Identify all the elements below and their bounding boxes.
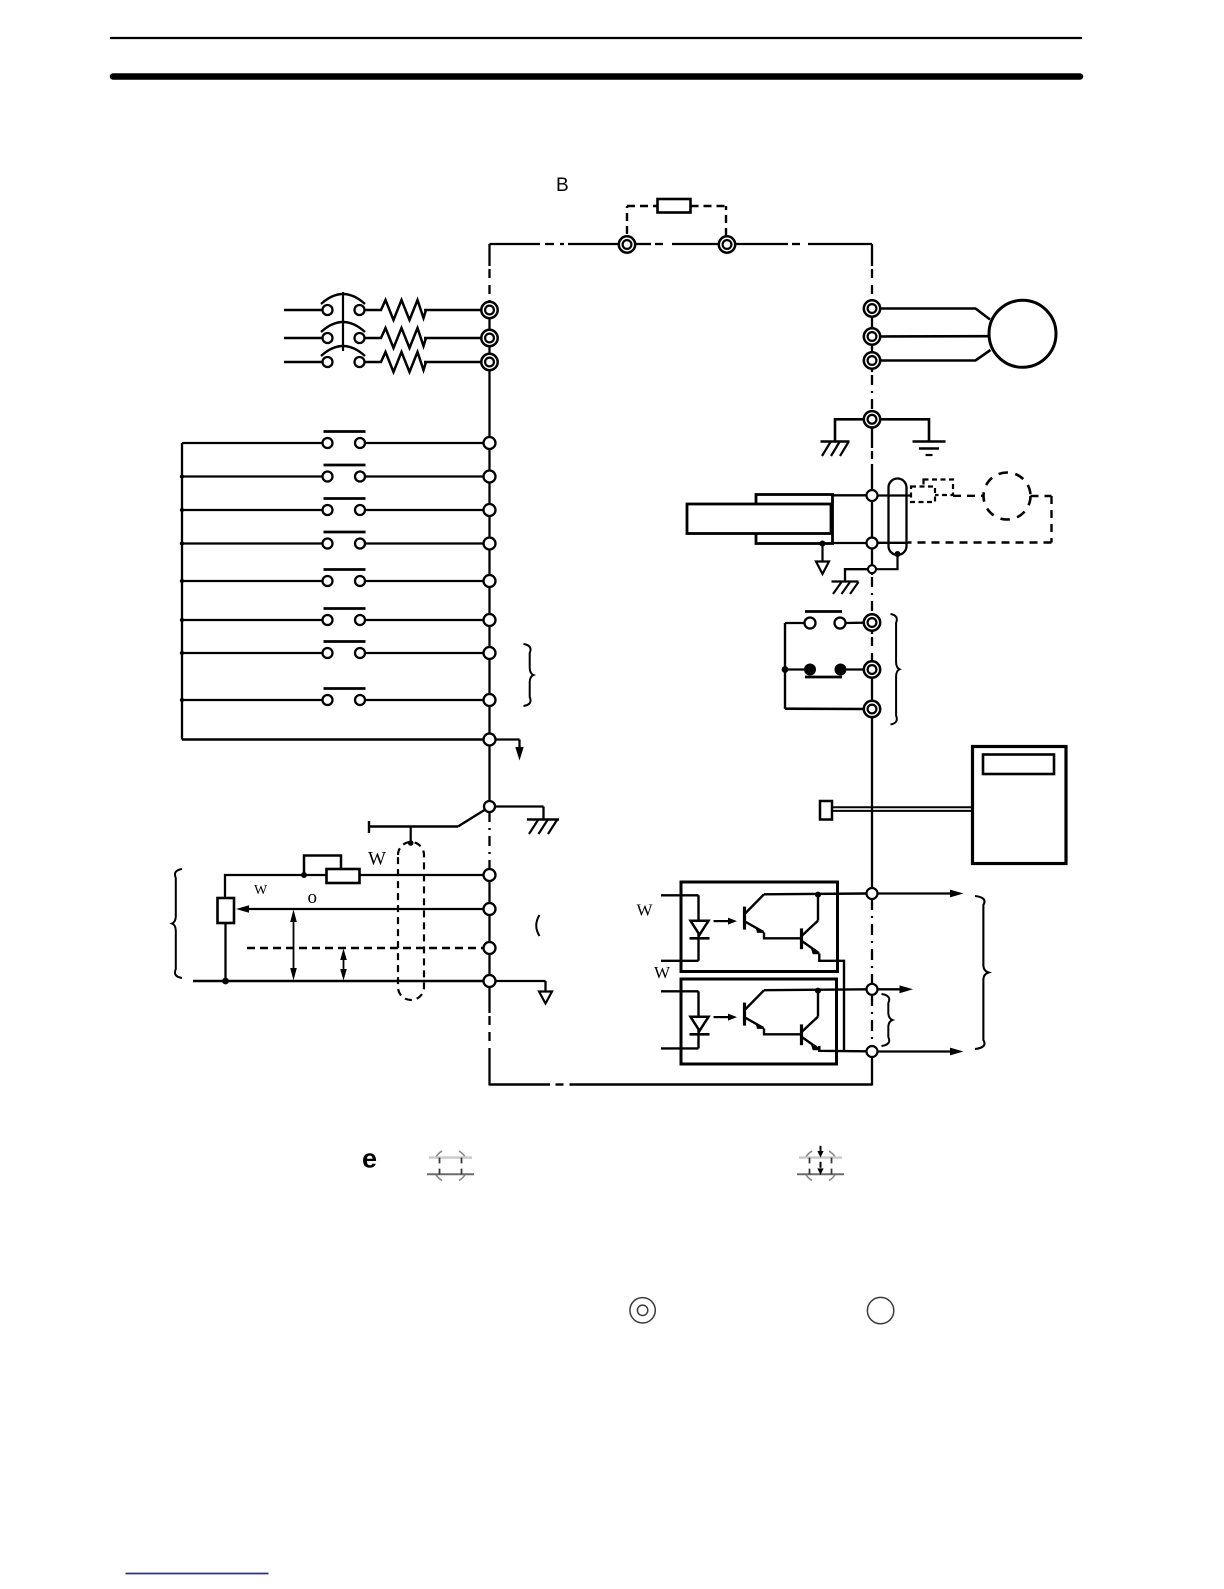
- wire: PH2 LED branch: [697, 991, 699, 1048]
- wire: NO contact left lead: [785, 622, 804, 624]
- wire: NC to terminal MB: [847, 668, 865, 670]
- wire: FM+ to terminal: [833, 494, 867, 496]
- brace: P2/PC pair: [882, 994, 893, 1046]
- terminal P2: [867, 984, 878, 995]
- resistor (line reactor) L1 zigzag: [381, 300, 426, 320]
- terminal R: [481, 302, 497, 318]
- box: operator display window: [983, 755, 1054, 775]
- transistor Q2 PH2: [800, 1024, 803, 1045]
- terminal shield drain: [868, 565, 876, 573]
- resistor R-BR (braking resistor): [658, 199, 691, 213]
- wire: switch S4 to terminal: [365, 542, 484, 544]
- svg-text:W: W: [368, 849, 386, 870]
- terminal MA: [864, 614, 880, 630]
- contact NC dots: [804, 664, 816, 676]
- wire: phase L3 input lead: [284, 361, 323, 363]
- wire: selector lever: [458, 810, 485, 827]
- terminal DI6: [484, 614, 496, 626]
- resistor (line reactor) L2 zigzag: [381, 328, 426, 348]
- resistor (line reactor) L3 zigzag: [381, 352, 426, 372]
- header thick rule: [113, 73, 1080, 80]
- wire: switch S7 to terminal: [365, 652, 484, 654]
- switch S1 contacts: [323, 438, 333, 448]
- wire: relay left link: [784, 623, 786, 709]
- box: digital operator: [973, 747, 1067, 864]
- wire: SC stub to arrow: [496, 738, 520, 740]
- wire: U to motor: [880, 309, 990, 320]
- wire: PH1 input top: [661, 894, 699, 896]
- wire: jumper loop over resistor: [304, 856, 341, 876]
- svg-text:W: W: [254, 883, 268, 898]
- wire: switch S1 to terminal: [365, 442, 484, 444]
- contact NO bar: [805, 610, 842, 613]
- connector: operator plug: [820, 801, 832, 820]
- shield: dashed oval around analog wires: [398, 842, 424, 1000]
- wire: top bus right of B2: [735, 243, 789, 245]
- svg-text:e: e: [362, 1144, 377, 1174]
- svg-text:o: o: [308, 887, 318, 908]
- ground: chassis ground (selector): [527, 818, 559, 820]
- legend: shielded wire symbol: [434, 1149, 468, 1183]
- breaker MCCB pole 2 arc: [321, 322, 365, 332]
- wire: input S3 row: [182, 509, 323, 511]
- wire: input S1 row: [182, 442, 323, 444]
- terminal E (ground): [864, 411, 880, 427]
- meter: frequency meter dashed circle: [984, 473, 1031, 520]
- terminal MC: [864, 701, 880, 717]
- terminal S: [481, 330, 497, 346]
- svg-text:W: W: [637, 901, 654, 920]
- node: shield drain junction: [895, 551, 901, 557]
- terminal T: [481, 354, 497, 370]
- wire: ground terminal to chassis ground: [835, 419, 864, 441]
- wire: switch S5 to terminal: [365, 580, 484, 582]
- arrow: P1 output: [878, 892, 957, 894]
- legend: control-circuit terminal symbol: [867, 1297, 893, 1323]
- connector: dashed plug (big): [924, 480, 954, 496]
- wire: operator cable (2 lines): [832, 806, 973, 808]
- breaker MCCB pole 3 contact circles: [323, 357, 333, 367]
- paren: analog note: [536, 915, 539, 936]
- switch S5 bar: [324, 568, 366, 571]
- arrow: P2 output: [878, 988, 907, 990]
- breaker MCCB pole 1 contact circles: [323, 305, 333, 315]
- wire: shield drain: [877, 554, 898, 569]
- optocoupler PH2 box: [681, 979, 837, 1064]
- switch S1 bar: [324, 430, 366, 433]
- wire: reactor to terminal R/S/T 2: [424, 337, 482, 339]
- wire: FM- to label box: [833, 542, 867, 544]
- switch S7 contacts: [323, 648, 333, 658]
- potentiometer body: [218, 898, 235, 923]
- switch S8 contacts: [323, 695, 333, 705]
- wire: drain to chassis ground: [845, 569, 868, 581]
- connector: dashed plug (small): [911, 487, 935, 503]
- ground: signal ground triangle (FM): [816, 562, 829, 575]
- terminal FM: [867, 490, 878, 501]
- brace: relay output group: [891, 614, 900, 725]
- wire: top bus break dash: [545, 243, 564, 245]
- terminal FI (aux input): [484, 942, 496, 954]
- wire: W to motor: [880, 350, 991, 361]
- wire: junction to signal ground: [821, 544, 823, 562]
- wire: PH2 collector rail: [764, 988, 867, 991]
- breaker MCCB pole 1 arc: [321, 294, 365, 304]
- wire: PH2 input bottom: [661, 1047, 699, 1049]
- arrow: voltage range tall (both ends): [293, 915, 295, 975]
- terminal DI5: [484, 575, 496, 587]
- wire: breaker to reactor pole 1: [365, 309, 383, 311]
- switch S6 bar: [324, 607, 366, 610]
- arrow: pot wiper: [236, 905, 249, 913]
- wire: left vertical bus: [488, 244, 490, 266]
- wire: FM to meter (solid through shield): [878, 494, 912, 496]
- box: FM output label (wide rect): [687, 504, 831, 534]
- wire: switch S6 to terminal: [365, 619, 484, 621]
- wire: PH1 input bottom: [661, 960, 699, 962]
- wire: dashed plug to meter: [953, 495, 984, 497]
- wire: dashed leads of braking resistor: [626, 206, 628, 234]
- wire: input S8 row: [182, 699, 323, 701]
- shield: solid oval on meter wires: [889, 479, 907, 556]
- wire: input S6 row: [182, 619, 323, 621]
- wire: top bus left segment: [490, 243, 541, 245]
- terminal P1: [867, 888, 878, 899]
- wire: dashed meter return: [1031, 495, 1052, 497]
- wire: switch S3 to terminal: [365, 509, 484, 511]
- box: FM output label (tall rect): [756, 495, 833, 544]
- transistor Q1 PH2: [743, 1003, 746, 1026]
- switch S4 bar: [324, 531, 366, 534]
- breaker MCCB pole 3 arc: [321, 346, 365, 356]
- ground: signal ground triangle: [539, 992, 552, 1004]
- switch S8 bar: [324, 687, 366, 690]
- switch S3 contacts: [323, 505, 333, 515]
- arrow: SC down arrow: [515, 747, 523, 761]
- wire: PH1 emitter out: [819, 954, 844, 1052]
- terminal FC (analog common): [484, 975, 496, 987]
- terminal FM common: [867, 538, 878, 549]
- wire: breaker to reactor pole 2: [365, 337, 383, 339]
- svg-text:W: W: [654, 963, 671, 982]
- contact NO circles: [805, 618, 816, 629]
- terminal PC (opto common): [867, 1046, 878, 1057]
- wire: wiper to terminal FR: [248, 908, 484, 910]
- header thin rule: [110, 37, 1082, 39]
- svg-text:B: B: [556, 175, 569, 196]
- wire: selector left row: [369, 825, 458, 827]
- wire: PH1 LED branch: [697, 895, 699, 961]
- diode LED PH1: [691, 921, 709, 935]
- optocoupler PH1 box: [681, 882, 838, 972]
- wire: relay common bottom: [785, 707, 864, 710]
- wire: input S5 row: [182, 580, 323, 582]
- wire: NC contact left lead: [785, 668, 804, 670]
- terminal SC (sequence common): [484, 734, 496, 746]
- wire: PH1 collector rail: [764, 892, 867, 895]
- resistor (current limit): [327, 869, 360, 883]
- wire: V to motor: [880, 335, 989, 338]
- wire: pot bottom leg: [224, 923, 226, 981]
- contact NC bar: [805, 676, 842, 679]
- wire: digital input common bus (left): [181, 443, 183, 740]
- wire: top bus between B1,B2: [635, 243, 651, 245]
- terminal MB: [864, 661, 880, 677]
- breaker MCCB pole 2 contact circles: [323, 333, 333, 343]
- wire: phase L2 input lead: [284, 337, 323, 339]
- wire: tick to shield oval: [410, 827, 412, 844]
- node: junction on FM- wire: [820, 541, 826, 547]
- wire: selector to chassis ground: [496, 805, 544, 807]
- brace: multi-function input group: [524, 644, 534, 706]
- wire: PH2 input top: [661, 990, 699, 992]
- switch SW (shield ground selector) contact: [484, 801, 495, 812]
- terminal B1: [619, 236, 635, 252]
- brace: analog input group (left): [172, 869, 182, 978]
- wire: ground terminal to earth ground: [880, 419, 929, 441]
- terminal DI3: [484, 504, 496, 516]
- wire: sequence common row: [182, 738, 484, 741]
- wire: bottom bus: [490, 1083, 551, 1085]
- wire: return into FM- terminal: [878, 542, 909, 544]
- wire: input S7 row: [182, 652, 323, 654]
- terminal DI8: [484, 694, 496, 706]
- terminal DI4: [484, 538, 496, 550]
- terminal V: [864, 328, 880, 344]
- wire: +V supply row: [225, 875, 484, 898]
- wire: input S4 row: [182, 542, 323, 544]
- legend: twisted shielded wire symbol: [804, 1149, 838, 1183]
- wire: switch S2 to terminal: [365, 475, 484, 477]
- brace: opto output group: [975, 896, 989, 1049]
- arrow: PC output: [878, 1050, 957, 1052]
- switch S7 bar: [324, 640, 366, 643]
- switch S3 bar: [324, 497, 366, 500]
- wire: PH2 emitter to common rail: [819, 1046, 866, 1051]
- switch S2 bar: [324, 464, 366, 467]
- switch S5 contacts: [323, 576, 333, 586]
- wire: selector row end tick: [368, 821, 370, 833]
- wire: dashed aux analog row: [247, 947, 484, 950]
- wire: breaker to reactor pole 3: [365, 361, 383, 363]
- terminal B2: [719, 236, 735, 252]
- terminal W: [864, 352, 880, 368]
- wire: reactor to terminal R/S/T 3: [424, 361, 482, 363]
- arrow: voltage range short (both ends): [343, 953, 345, 976]
- arrow: light coupling PH2: [714, 1016, 730, 1018]
- wire: FC to signal ground: [496, 980, 546, 982]
- node: junction on +V row: [301, 872, 307, 878]
- legend: main-circuit terminal symbol: [630, 1298, 655, 1323]
- wire: analog common row: [193, 980, 484, 982]
- switch S6 contacts: [323, 615, 333, 625]
- ground: chassis ground (left of motor): [821, 440, 850, 442]
- terminal FR (freq ref): [484, 903, 496, 915]
- ground: chassis ground (drain): [832, 580, 859, 582]
- terminal DI7: [484, 647, 496, 659]
- breaker MCCB mechanical link: [342, 292, 344, 351]
- wire: phase L1 input lead: [284, 309, 323, 311]
- terminal DI1: [484, 437, 496, 449]
- wire: switch S8 to terminal: [365, 699, 484, 701]
- ground: earth ground (3 bars): [913, 440, 946, 443]
- switch S4 contacts: [323, 539, 333, 549]
- wire: right vertical bus: [871, 244, 873, 266]
- terminal U: [864, 300, 880, 316]
- transistor Q2 PH1: [800, 928, 803, 949]
- arrow: light coupling PH1: [714, 920, 730, 922]
- transistor Q1 PH1: [743, 907, 746, 930]
- motor M circle: [989, 300, 1056, 367]
- wire: input S2 row: [182, 475, 323, 477]
- switch S2 contacts: [323, 472, 333, 482]
- wire: NO to terminal MA: [846, 622, 865, 625]
- terminal FS (+V): [484, 869, 496, 881]
- wire: reactor to terminal R/S/T 1: [424, 309, 482, 311]
- diode LED PH2: [691, 1017, 709, 1031]
- footer link line: [126, 1573, 269, 1575]
- terminal DI2: [484, 471, 496, 483]
- wire: top bus to terminal B1: [568, 243, 620, 245]
